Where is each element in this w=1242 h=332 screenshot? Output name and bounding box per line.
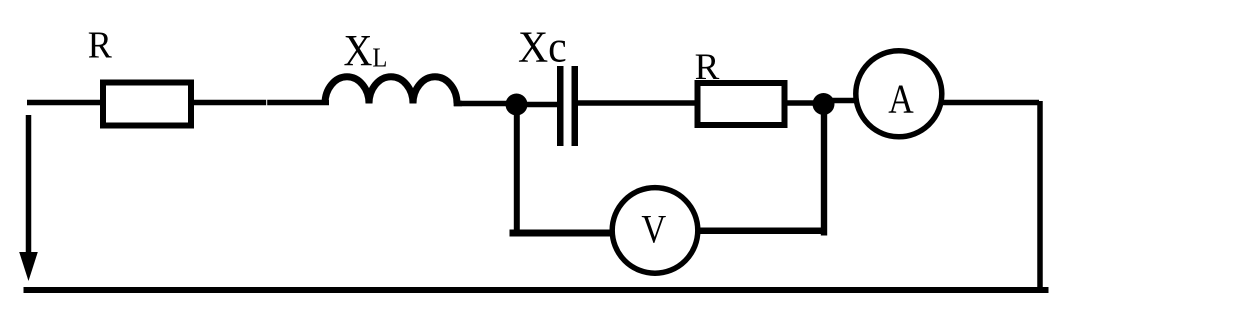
voltmeter V [612,188,698,274]
wire: ammeter to right vertical [930,100,1039,106]
svg-text:Xc: Xc [518,24,567,72]
capacitor Xc plate 1 [557,66,564,146]
wire: node 1 to capacitor [516,102,558,108]
svg-text:V: V [641,208,666,252]
arrowhead (current direction) [19,252,38,281]
wire: capacitor to resistor R2 [577,100,698,106]
node 2 (junction dot) [813,93,835,115]
svg-text:R: R [88,25,112,67]
wire: node 2 to ammeter [823,98,870,104]
inductor XL right stub [454,101,462,107]
ammeter A [856,51,942,137]
svg-text:A: A [888,77,914,122]
node 1 (junction dot) [506,94,528,116]
wire: voltmeter branch left vertical [514,104,520,237]
resistor R1 (left) [103,83,191,126]
wire: voltmeter branch right horizontal [694,228,827,235]
wire: voltmeter branch left horizontal [510,230,617,237]
inductor XL coil (three chained arcs) [325,77,457,104]
wire: right vertical [1037,101,1043,293]
wire: left vertical with current arrow [26,115,32,253]
wire: bottom horizontal [24,287,1049,293]
wire seam (segment joint) [266,100,268,106]
wire: top-left horizontal segment [27,100,104,106]
wire: resistor R1 to inductor [191,100,329,106]
svg-text:R: R [695,47,720,88]
wire: voltmeter branch right vertical [821,104,827,236]
resistor R2 [698,83,785,125]
wire: resistor R2 to node 2 [785,100,826,106]
capacitor Xc plate 2 [572,66,579,146]
wire: inductor to node 1 [454,101,520,107]
svg-text:XL: XL [344,27,388,75]
